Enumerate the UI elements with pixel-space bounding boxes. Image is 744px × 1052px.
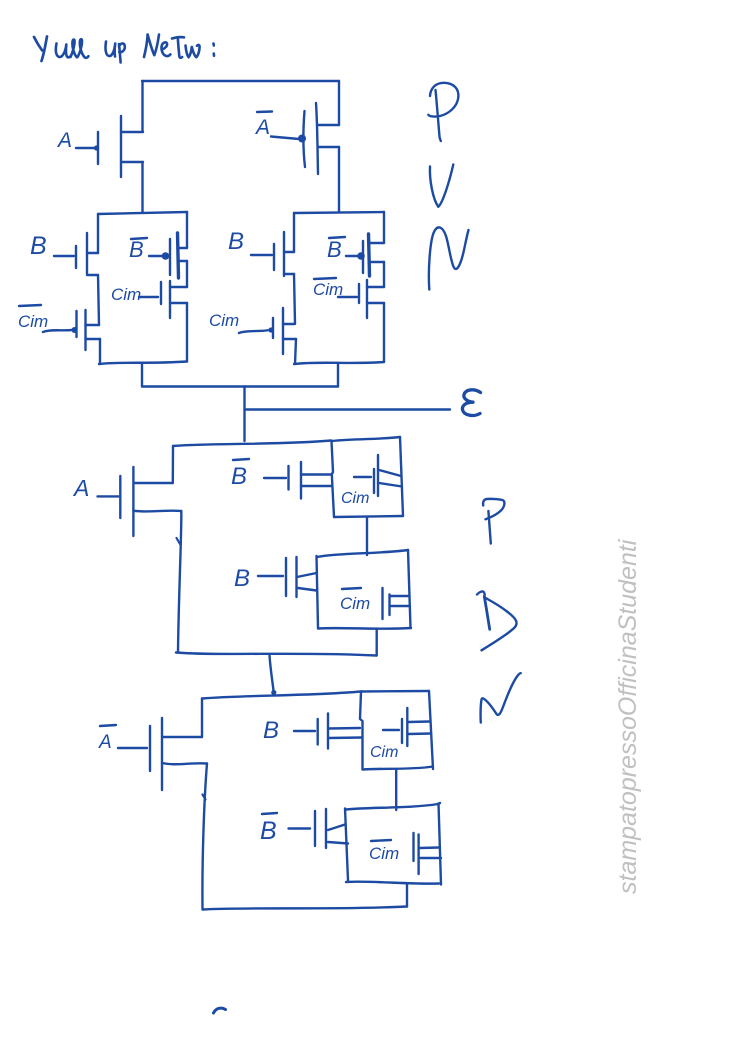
transistor Cin left-box mid-right — [111, 281, 187, 318]
Cin-bar sub-box middle — [317, 550, 412, 629]
svg-text:B: B — [231, 463, 247, 490]
wire joining branches — [142, 385, 338, 387]
wire rail to Abar drain — [338, 81, 340, 125]
wire right box bottom stub — [337, 363, 339, 387]
svg-text:Cim: Cim — [370, 744, 398, 761]
node E label epsilon — [462, 390, 480, 416]
transistor B right-box upper-left — [228, 228, 294, 276]
svg-text:A: A — [98, 732, 112, 753]
svg-text:B: B — [327, 237, 342, 262]
transistor A top-left — [56, 116, 143, 177]
svg-text:B: B — [234, 565, 250, 592]
wire E output line — [245, 408, 451, 410]
transistor Cin-bar left-box lower-left — [18, 305, 100, 350]
title handwriting &quot;Pull up Netw :&quot; — [34, 35, 214, 63]
transistor Cin lower (in sub-box) — [370, 708, 431, 761]
transistor A-bar lower — [98, 718, 207, 790]
Cin-bar sub-box lower — [345, 803, 441, 885]
svg-text:Cim: Cim — [341, 490, 369, 507]
wire Cin box to Cinbar box lower — [395, 770, 397, 811]
wire A source to left box — [141, 162, 143, 212]
label U of PUN — [430, 165, 453, 207]
transistor B-bar left-box upper-right — [129, 233, 187, 278]
transistor B middle — [234, 557, 317, 597]
wire middle box to lower box — [270, 656, 274, 694]
transistor Cin right-box lower-left — [209, 308, 296, 354]
Cin sub-box middle — [332, 437, 404, 517]
wire rail to A drain — [141, 81, 143, 132]
transistor Cin-bar right-box mid-right — [313, 278, 384, 318]
svg-text:B: B — [30, 232, 47, 260]
svg-text:stampatopressoOfficinaStudenti: stampatopressoOfficinaStudenti — [614, 538, 642, 894]
svg-text:Cim: Cim — [209, 311, 239, 330]
svg-text:Cim: Cim — [111, 285, 141, 304]
label P of PDN — [483, 499, 504, 544]
label N of PUN — [429, 227, 469, 289]
svg-text:B: B — [129, 237, 144, 262]
label P of PUN — [428, 83, 458, 141]
transistor B left-box upper-left — [30, 232, 98, 275]
label N of PDN — [481, 673, 521, 722]
transistor Cin middle (in sub-box) — [341, 455, 402, 507]
transistor B-bar middle — [231, 459, 332, 499]
svg-text:Cim: Cim — [18, 312, 48, 331]
stray pen mark bottom — [214, 1008, 226, 1013]
svg-text:B: B — [260, 817, 277, 845]
wire Abar source to right box — [338, 147, 340, 212]
wire center drop — [243, 387, 245, 442]
transistor Cin-bar middle (in sub-box) — [340, 588, 410, 619]
svg-text:A: A — [56, 129, 72, 152]
transistor Cin-bar lower (in sub-box) — [369, 833, 441, 874]
wire left box bottom stub — [141, 363, 143, 387]
svg-text:A: A — [254, 116, 270, 139]
svg-text:A: A — [72, 475, 89, 501]
wire Cin box to Cinbar box middle — [366, 517, 368, 555]
svg-text:Cim: Cim — [340, 594, 370, 613]
transistor B-bar lower — [260, 809, 348, 848]
lower box outline — [202, 692, 407, 910]
transistor B lower — [263, 714, 362, 749]
middle box outline — [173, 441, 377, 656]
left branch box outline — [98, 212, 187, 364]
transistor A-bar top-right — [254, 103, 339, 174]
right branch box outline — [294, 212, 384, 364]
svg-text:B: B — [263, 717, 279, 744]
label D of PDN — [477, 591, 517, 650]
transistor A middle — [72, 467, 181, 536]
svg-text:B: B — [228, 228, 244, 255]
Cin sub-box lower — [360, 691, 433, 770]
svg-text:Cim: Cim — [369, 844, 399, 863]
wire top rail — [142, 80, 339, 82]
transistor B-bar right-box upper-right — [327, 234, 384, 276]
